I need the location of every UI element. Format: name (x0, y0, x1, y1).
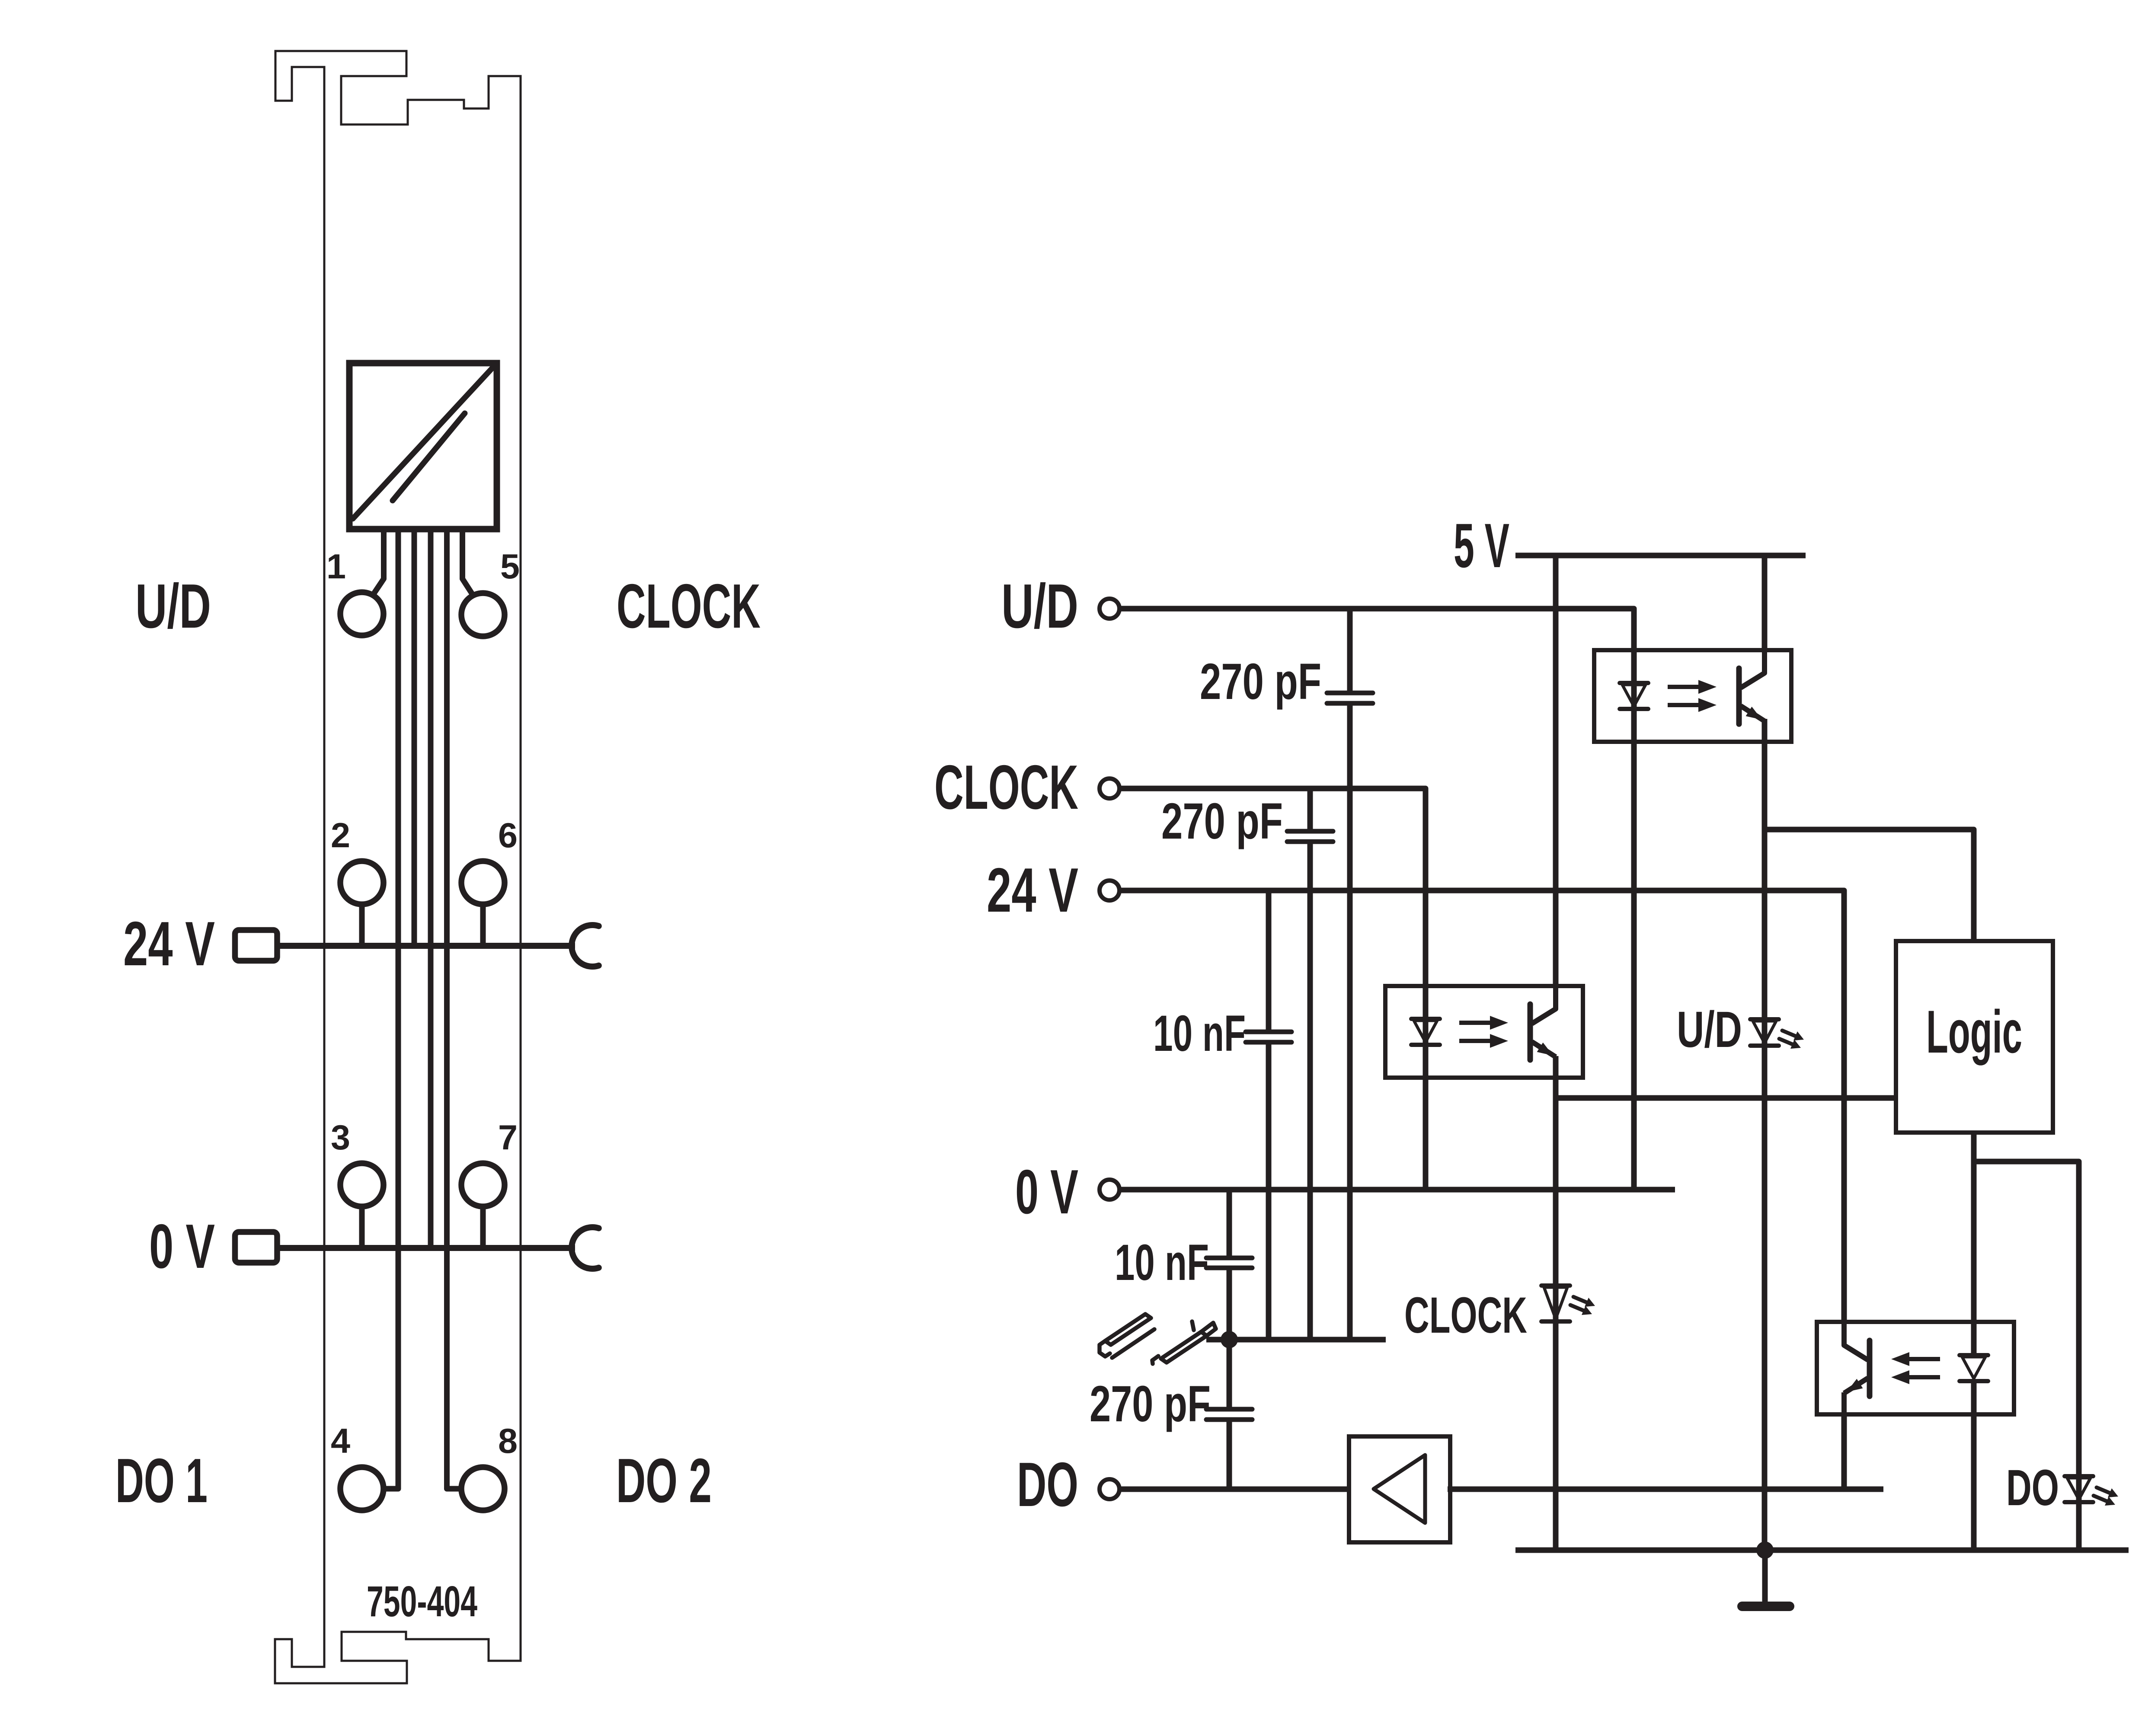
capacitor C2 270pF (1287, 831, 1333, 842)
svg-text:Logic: Logic (1926, 998, 2022, 1066)
wire 5V rail (1515, 553, 1806, 558)
function block diagonal 1 (353, 368, 492, 519)
svg-text:10 nF: 10 nF (1153, 1005, 1246, 1062)
wire optocoupler U3 emitter to DO line (1841, 1414, 1847, 1489)
24V bus connector (235, 930, 278, 961)
svg-text:DO: DO (2006, 1459, 2059, 1516)
wire terminal 7 to 0V bus (480, 1206, 486, 1248)
capacitor C1 270pF (1327, 693, 1373, 703)
wire terminal 2 to 24V bus (359, 904, 365, 946)
svg-text:7: 7 (498, 1118, 518, 1157)
wire ground bus (1515, 1548, 2129, 1553)
svg-text:DO: DO (1017, 1449, 1078, 1519)
svg-text:6: 6 (498, 816, 518, 855)
wire CLOCK to capacitor C2 (1307, 788, 1313, 830)
capacitor C4 10nF (1206, 1258, 1252, 1268)
terminal 1 (340, 592, 384, 635)
input terminal 24V (1100, 881, 1119, 900)
24V bus jumper contact (572, 925, 599, 967)
wire pin1 to terminal 1 (373, 529, 384, 595)
svg-text:5 V: 5 V (1454, 511, 1509, 581)
function block diagonal 2 (393, 413, 465, 501)
wire optocoupler U1 emitter to U/D LED to ground (1762, 719, 1768, 1550)
wire CLOCK input to optocoupler U2 LED to 0V (1119, 788, 1426, 1190)
svg-text:10 nF: 10 nF (1115, 1234, 1209, 1291)
ground symbol (1742, 1602, 1790, 1611)
svg-text:24 V: 24 V (987, 855, 1078, 925)
wire pin3 to 24V bus (412, 529, 417, 946)
optocoupler U1 (U/D) (1594, 650, 1791, 742)
24V bus (277, 943, 575, 949)
LED U/D indicator (1750, 1019, 1804, 1049)
wire ground stem (1762, 1550, 1768, 1605)
terminal 6 (461, 861, 505, 904)
wire pin5 to terminal 8 (447, 529, 460, 1489)
svg-text:DO 1: DO 1 (115, 1446, 208, 1516)
wire optocoupler U1 emitter to Logic (1765, 830, 1974, 941)
terminal 7 (461, 1163, 505, 1206)
wire optocoupler U3 LED cathode to ground (1971, 1381, 1977, 1550)
input terminal U/D (1100, 599, 1119, 619)
wire optocoupler U2 emitter to Logic (1556, 1095, 1896, 1101)
wire terminal 6 to 24V bus (480, 904, 486, 946)
svg-text:270 pF: 270 pF (1161, 793, 1283, 850)
wire U/D to capacitor C1 (1347, 609, 1353, 693)
LED CLOCK indicator (1541, 1286, 1595, 1321)
wire 5V to optocoupler U2 collector (1553, 555, 1559, 986)
svg-text:U/D: U/D (1677, 1001, 1742, 1058)
DIN rail chassis symbol (1100, 1314, 1216, 1364)
wire 24V input to optocoupler U3 collector (1119, 890, 1844, 1322)
wire capacitor C1 to chassis node (1347, 703, 1353, 1340)
wire U/D input to optocoupler U1 LED to 0V (1119, 609, 1634, 1190)
0V bus (277, 1245, 575, 1251)
svg-text:3: 3 (331, 1118, 350, 1157)
terminal 8 (461, 1467, 505, 1510)
svg-text:DO 2: DO 2 (616, 1446, 712, 1516)
svg-text:270 pF: 270 pF (1200, 653, 1321, 710)
svg-text:0 V: 0 V (1015, 1157, 1078, 1227)
junction ground node (1756, 1541, 1774, 1559)
wire optocoupler U2 emitter to CLOCK LED to ground (1553, 1056, 1559, 1550)
0V bus connector (235, 1232, 278, 1263)
terminal 5 (461, 593, 505, 636)
svg-text:0 V: 0 V (149, 1211, 215, 1281)
svg-text:5: 5 (500, 547, 520, 586)
terminal 4 (340, 1467, 384, 1510)
optocoupler U2 (CLOCK) (1385, 986, 1583, 1078)
wire pin2 to terminal 4 (385, 529, 398, 1489)
capacitor C5 270pF (1206, 1409, 1252, 1420)
wire DO input to driver (1119, 1487, 1349, 1492)
output driver A1 (1349, 1436, 1450, 1542)
wire capacitor C3 to chassis node (1266, 1042, 1272, 1340)
svg-text:750-404: 750-404 (367, 1577, 477, 1626)
svg-text:CLOCK: CLOCK (1404, 1287, 1527, 1344)
wire pin6 to terminal 5 (463, 529, 473, 595)
junction chassis node (1221, 1331, 1238, 1348)
input terminal CLOCK (1100, 779, 1119, 798)
function block box (349, 363, 497, 529)
svg-text:24 V: 24 V (123, 909, 215, 979)
wire 0V rail (1119, 1187, 1675, 1193)
svg-text:270 pF: 270 pF (1090, 1375, 1211, 1433)
LED DO indicator (2065, 1476, 2118, 1506)
svg-text:U/D: U/D (135, 571, 211, 641)
wire capacitor C2 to chassis node (1307, 842, 1313, 1340)
module body outline 750-404 (275, 51, 521, 1683)
terminal 3 (340, 1163, 384, 1206)
wire Logic to DO LED to ground (1974, 1162, 2079, 1550)
svg-text:4: 4 (331, 1422, 350, 1461)
svg-text:8: 8 (498, 1422, 518, 1461)
svg-text:1: 1 (326, 547, 346, 586)
wire driver output to optocoupler U3 emitter (1448, 1487, 1883, 1492)
wire capacitor C4 to chassis node to capacitor C5 (1227, 1268, 1232, 1409)
wire terminal 3 to 0V bus (359, 1206, 365, 1248)
wire 5V to optocoupler U1 collector (1762, 555, 1768, 650)
input terminal 0V (1100, 1180, 1119, 1200)
0V bus jumper contact (572, 1227, 599, 1269)
wire Logic to optocoupler U3 LED (1971, 1133, 1977, 1355)
wire pin4 to 0V bus (428, 529, 434, 1248)
svg-text:U/D: U/D (1001, 571, 1078, 641)
capacitor C3 10nF (1246, 1032, 1291, 1042)
terminal 2 (340, 861, 384, 904)
svg-text:2: 2 (331, 816, 350, 855)
wire capacitor C5 to DO line (1227, 1420, 1232, 1489)
wire 24V to capacitor C3 (1266, 890, 1272, 1032)
input terminal DO (1100, 1479, 1119, 1499)
logic block U4 (1896, 941, 2053, 1133)
svg-text:CLOCK: CLOCK (934, 752, 1078, 822)
svg-text:CLOCK: CLOCK (617, 571, 761, 641)
driver triangle (1374, 1455, 1425, 1523)
wire 0V to capacitor C4 (1227, 1190, 1232, 1258)
wire chassis node (1206, 1337, 1386, 1343)
optocoupler U3 (DO feedback) (1817, 1322, 2014, 1414)
